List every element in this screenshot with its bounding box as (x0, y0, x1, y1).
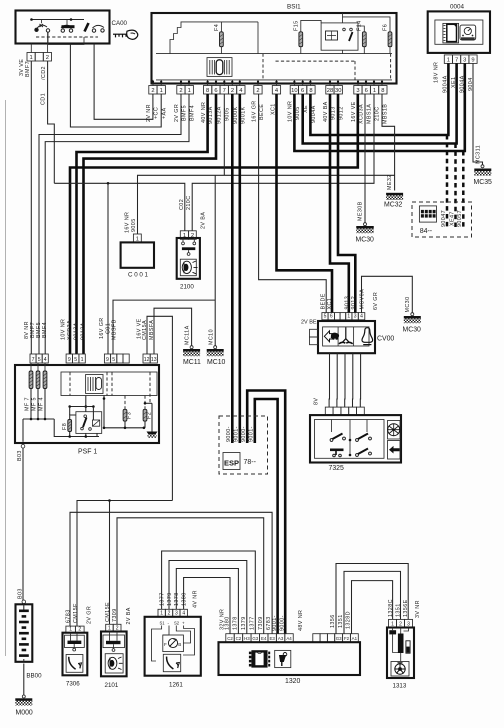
svg-text:12: 12 (144, 357, 150, 363)
svg-text:8V: 8V (314, 398, 320, 405)
svg-text:E4: E4 (261, 636, 267, 641)
key symbol (113, 30, 138, 39)
1320 box (219, 642, 361, 675)
dashed wire 90057 (462, 151, 465, 228)
svg-text:B: B (178, 642, 181, 647)
PSF1 relay bottom stubs (85, 433, 87, 436)
wire CM15E branch to 2101 (109, 501, 111, 625)
svg-text:8: 8 (309, 88, 312, 94)
svg-text:28: 28 (327, 88, 333, 94)
dashed wire XE47 (454, 144, 457, 229)
svg-text:1: 1 (188, 88, 191, 94)
svg-text:PSF 1: PSF 1 (78, 449, 97, 456)
svg-text:BMF7: BMF7 (25, 61, 31, 77)
connector CA00 pins 1 2 (27, 53, 35, 62)
svg-text:40V BA: 40V BA (323, 101, 329, 122)
svg-text:5: 5 (112, 357, 115, 363)
ground M000 (22, 695, 25, 698)
svg-text:A3: A3 (278, 636, 284, 641)
svg-text:16V GR: 16V GR (251, 100, 257, 122)
CV00 connector pins 5 6 1 3 4 (322, 313, 328, 320)
svg-text:5: 5 (74, 357, 77, 363)
wire 6783 7306 to 1320 (70, 512, 272, 633)
svg-text:5: 5 (38, 357, 41, 363)
svg-text:7309: 7309 (258, 616, 264, 630)
1320 chip icon (251, 650, 267, 667)
svg-text:9000-: 9000- (226, 426, 232, 442)
battery plates (19, 610, 29, 613)
svg-text:S2: S2 (174, 621, 180, 626)
svg-text:F: F (164, 642, 167, 647)
svg-text:1377: 1377 (249, 616, 255, 630)
2101 leveling icon (108, 657, 123, 670)
svg-text:1351: 1351 (396, 603, 402, 617)
svg-text:CV00: CV00 (377, 336, 394, 343)
wire MC10 leg (214, 175, 216, 345)
svg-text:MC11: MC11 (183, 359, 201, 366)
CA00 mechanical link dashed (36, 36, 98, 38)
svg-text:9005: 9005 (225, 107, 231, 121)
svg-text:BMF5: BMF5 (181, 105, 187, 121)
svg-text:0004: 0004 (450, 4, 465, 11)
svg-text:6: 6 (365, 88, 368, 94)
svg-text:2100: 2100 (180, 284, 194, 291)
wire battery to M000 (23, 664, 25, 696)
wire C01 branch to PSF1 pin9 (107, 183, 109, 354)
PSF1 MF bus (23, 418, 54, 420)
CA00 internal wire (48, 32, 84, 45)
node B03 bottom (22, 600, 26, 604)
PSF1 band dashed columns (69, 372, 71, 396)
svg-text:+AA: +AA (161, 107, 167, 119)
svg-text:F4: F4 (214, 24, 220, 31)
svg-text:9001-: 9001- (234, 426, 240, 442)
svg-text:3: 3 (463, 57, 466, 63)
svg-text:S1: S1 (160, 621, 166, 626)
1320 bulb icon (275, 650, 291, 667)
svg-text:XE47: XE47 (449, 211, 455, 226)
wires CV00 to 7325 (328, 353, 330, 407)
1261 connector pins 1 2 3 4 (158, 609, 165, 617)
fuse F3 (123, 409, 127, 421)
ground MC32 (386, 193, 403, 196)
wire XC1 BSI to CV00 pin6 (277, 94, 333, 313)
switch 2100 box (177, 238, 200, 279)
page fold line (5, 100, 7, 656)
CA00 contact 3 (92, 25, 104, 32)
wire 9004A 0004 pin1 (310, 63, 448, 135)
ground MC11 (190, 346, 193, 349)
svg-text:MBSFA: MBSFA (149, 320, 155, 340)
svg-text:40V NR: 40V NR (201, 102, 207, 123)
PSF1 lower bus right (104, 427, 144, 429)
wire CD1 from CA00 pin2 (48, 61, 55, 183)
PSF1 relay box (76, 412, 102, 434)
7325 inner contour (315, 420, 385, 459)
7325 arrow icon (388, 441, 401, 460)
svg-text:MCV0A: MCV0A (359, 289, 365, 310)
svg-text:8: 8 (206, 88, 209, 94)
7306 box (63, 633, 88, 676)
svg-text:MC30: MC30 (405, 297, 411, 313)
wire MCV0A to MC30 lower (362, 276, 413, 313)
wire pin1 stub (30, 44, 32, 53)
svg-text:1320: 1320 (285, 678, 300, 685)
BSI1 connector pins group7 (326, 86, 334, 95)
BSI1 connector pins group1 (149, 86, 157, 95)
CV00 horn icon (362, 328, 373, 345)
svg-text:C 0 0 1: C 0 0 1 (128, 272, 149, 279)
7325 wheel icon (388, 421, 401, 440)
7325 park bar switch (330, 449, 344, 452)
wire 9012A BSI to PSF1 (84, 94, 217, 354)
PSF1 connector pins 12 13 (143, 354, 150, 363)
svg-text:1: 1 (447, 57, 450, 63)
wire 210C BSI to 2100 pin2 (192, 94, 374, 231)
PSF1 internal ground (145, 402, 152, 404)
2100 contacts (182, 242, 185, 245)
svg-text:6V GR: 6V GR (373, 292, 379, 310)
svg-text:/CD2: /CD2 (41, 66, 47, 80)
wire MBSFB PSF1 to MC10 (113, 300, 215, 354)
2101 inner connector (103, 635, 125, 648)
wire 9013A BSI to PSF1 (77, 94, 208, 354)
svg-text:90047: 90047 (441, 210, 447, 227)
svg-text:F3: F3 (126, 412, 132, 419)
svg-text:1: 1 (347, 314, 350, 320)
connector C001 pin 1 (133, 234, 141, 243)
svg-text:MC30: MC30 (356, 237, 375, 244)
svg-text:E3: E3 (269, 636, 275, 641)
svg-text:9005: 9005 (131, 218, 137, 232)
svg-text:6783: 6783 (66, 609, 72, 623)
BSI1 connector pin group5 (272, 86, 280, 95)
svg-text:7: 7 (455, 57, 458, 63)
svg-text:9013: 9013 (344, 296, 350, 310)
svg-text:10V NR: 10V NR (287, 101, 293, 122)
ESP bold box (223, 453, 240, 470)
CV00 turn signal icon (324, 331, 338, 342)
svg-text:C02: C02 (179, 199, 185, 210)
BSI1 connector pins group8 (354, 86, 362, 95)
svg-text:ME32: ME32 (387, 174, 393, 190)
PSF1 band connector icon (86, 375, 103, 394)
ground MC30 lower (411, 313, 414, 316)
svg-text:16V VE: 16V VE (351, 101, 357, 122)
svg-text:9000K: 9000K (233, 106, 239, 124)
svg-text:9012A: 9012A (81, 322, 87, 340)
svg-text:6: 6 (301, 88, 304, 94)
svg-text:CM15E: CM15E (105, 602, 111, 622)
wire 1356 1320 to 1313 (336, 564, 408, 634)
0004 connector pins 1 7 3 9 (444, 55, 452, 64)
svg-text:4: 4 (360, 314, 363, 320)
diagnostic connector box 84-- (412, 202, 472, 237)
CA00 internal supply rail (32, 19, 85, 21)
svg-text:3V NR: 3V NR (415, 600, 421, 618)
wire +AA BSI to CA00 (70, 44, 161, 128)
connector C001 box (121, 242, 154, 267)
7325 box (310, 415, 401, 462)
svg-text:9: 9 (68, 357, 71, 363)
svg-text:1: 1 (160, 88, 163, 94)
7325 switch bottom-right (356, 449, 372, 457)
svg-text:9001K: 9001K (240, 106, 246, 124)
svg-text:1328D: 1328D (346, 611, 352, 629)
1320 connector blank cells (313, 634, 320, 643)
fuse F14 (362, 32, 366, 47)
wire BMF7 CA00 pin1 to PSF1 pin7 (30, 61, 32, 354)
wire 1379 1261 to 1320 (169, 561, 247, 634)
CV00 box (318, 321, 375, 353)
7325 switch top-right (356, 434, 372, 442)
svg-text:9012: 9012 (351, 296, 357, 310)
1261 mirror icon (167, 657, 180, 669)
svg-text:F6: F6 (383, 24, 389, 31)
CV00 inner icons frame (323, 327, 369, 346)
svg-text:F2: F2 (146, 412, 152, 419)
svg-text:3: 3 (356, 88, 359, 94)
wire 9005 stub BSI pin7 (223, 94, 225, 175)
PSF1 band down columns (103, 396, 105, 428)
svg-text:1356E: 1356E (403, 599, 409, 617)
svg-text:1380: 1380 (181, 592, 187, 606)
svg-text:9: 9 (106, 357, 109, 363)
wire 9005 0004 pin3 (294, 63, 464, 151)
svg-text:MBSFB: MBSFB (112, 319, 118, 340)
fuse MF4 (44, 363, 46, 371)
wire XCD3A BSI pin3 to PSF1 pin9 (70, 94, 358, 354)
wire MBSFA PSF1 pin13 to MC11 (154, 308, 192, 354)
svg-text:78--: 78-- (244, 459, 257, 466)
dashed wire 90047 (446, 135, 449, 228)
svg-text:2V BA: 2V BA (201, 212, 207, 229)
svg-text:210C: 210C (374, 107, 380, 122)
svg-text:1: 1 (81, 357, 84, 363)
svg-text:4V NR: 4V NR (193, 590, 199, 608)
svg-text:F15: F15 (294, 21, 300, 32)
svg-text:9: 9 (471, 57, 474, 63)
svg-text:9001-: 9001- (272, 615, 278, 631)
wire 1351 1320 to 1313 (344, 571, 401, 633)
BSI1 internal bus band (156, 53, 392, 55)
svg-text:1377: 1377 (159, 592, 165, 606)
0004 inner frame (435, 20, 483, 44)
7325 inner wiring (349, 420, 351, 456)
svg-text:XCD3A: XCD3A (358, 104, 364, 124)
svg-text:+CC: +CC (153, 107, 159, 119)
svg-text:90057: 90057 (457, 210, 463, 227)
svg-text:13: 13 (151, 357, 157, 363)
svg-text:48V NR: 48V NR (298, 610, 304, 631)
svg-text:CA00: CA00 (112, 20, 128, 27)
svg-text:2V GR: 2V GR (174, 104, 180, 122)
wire BMF4 BSI to PSF1 pin4 (45, 94, 189, 354)
svg-text:F2: F2 (344, 636, 350, 641)
svg-text:MF 7: MF 7 (25, 397, 31, 411)
svg-text:MBS1B: MBS1B (382, 104, 388, 124)
BSI1 connector pins group6 (290, 86, 298, 95)
svg-text:2V GR: 2V GR (87, 606, 93, 624)
svg-text:MF 4: MF 4 (39, 397, 45, 411)
svg-text:2101: 2101 (105, 682, 119, 689)
BSI1 connector pins group2 (177, 86, 185, 95)
ground MC35 (481, 165, 484, 168)
svg-text:ME30B: ME30B (358, 201, 364, 221)
svg-text:1328C: 1328C (388, 599, 394, 617)
fuse MF7 (30, 363, 32, 371)
svg-text:2V BA: 2V BA (126, 607, 132, 624)
svg-text:6: 6 (330, 314, 333, 320)
svg-text:B03: B03 (17, 450, 23, 461)
CV00 wiper icon (339, 327, 353, 344)
svg-text:2: 2 (46, 55, 49, 61)
svg-text:1: 1 (373, 88, 376, 94)
svg-text:10V NR: 10V NR (61, 319, 67, 340)
svg-text:1313: 1313 (393, 683, 407, 690)
wire 9013 BSI to CV00 pin1 (330, 94, 349, 313)
svg-text:2: 2 (256, 88, 259, 94)
svg-text:1356: 1356 (330, 614, 336, 628)
BSI1 internal junction dots (152, 80, 154, 86)
BSI1 connector pin group4 (254, 86, 262, 95)
wire 1380 1261 to 1320 (184, 578, 230, 634)
1320 connector cells G3 F2 A1 (335, 634, 343, 643)
fuse F2 (143, 409, 147, 421)
PSF1 relay stub to band (85, 396, 87, 412)
wire 7309 2101 to 1320 (117, 518, 264, 634)
svg-text:G3: G3 (336, 636, 342, 641)
svg-text:XC1: XC1 (327, 298, 333, 310)
svg-text:30: 30 (335, 88, 341, 94)
svg-text:MBS1A: MBS1A (366, 104, 372, 124)
battery BB00 box (16, 604, 33, 662)
svg-text:1378: 1378 (174, 592, 180, 606)
wire B03 to battery (22, 448, 24, 600)
PSF1 internal band (61, 372, 157, 396)
svg-text:16V NR: 16V NR (125, 212, 131, 233)
svg-text:CD1: CD1 (41, 93, 47, 105)
svg-text:7325: 7325 (329, 465, 344, 472)
svg-text:BMF4: BMF4 (189, 105, 195, 121)
fuse F15 (299, 32, 303, 47)
svg-text:9013A: 9013A (208, 106, 214, 124)
svg-text:1: 1 (29, 55, 32, 61)
1261 rheostat box (163, 635, 184, 652)
7325 switch top-left (330, 434, 345, 442)
svg-text:M000: M000 (16, 710, 33, 717)
BSI1 connector pins group3 (204, 86, 212, 95)
svg-text:C2: C2 (227, 636, 233, 641)
svg-text:10: 10 (291, 88, 297, 94)
wire BMF5 BSI to PSF1 pin5 (39, 94, 181, 354)
fuse MF5 (37, 363, 39, 371)
svg-text:210C: 210C (186, 196, 192, 211)
1313 box (387, 628, 414, 679)
svg-text:F8: F8 (62, 423, 68, 430)
wire BECE BSI to CV00 pin5 (259, 94, 327, 313)
wire 1378 1261 to 1320 (176, 569, 238, 634)
svg-text:MC11A: MC11A (185, 325, 191, 345)
fuse F4 (220, 32, 224, 47)
1313 resistor elements (392, 628, 394, 631)
CA00 contact 1 (35, 24, 50, 32)
BSI1 box (152, 13, 397, 84)
7306 icon box (66, 655, 83, 673)
svg-text:2V BE: 2V BE (301, 319, 317, 325)
svg-text:+: + (182, 621, 185, 626)
CA00 contact 2 (61, 25, 73, 32)
wire 9012 BSI to CV00 pin3 (338, 94, 355, 313)
svg-text:1351: 1351 (338, 614, 344, 628)
svg-text:7: 7 (32, 357, 35, 363)
svg-text:9012A: 9012A (217, 106, 223, 124)
svg-text:1380: 1380 (224, 616, 230, 630)
svg-text:7: 7 (223, 88, 226, 94)
wire XE 0004 pin7 (303, 63, 457, 143)
svg-text:2: 2 (231, 88, 234, 94)
svg-text:18V NR: 18V NR (434, 62, 440, 83)
svg-text:BMF4: BMF4 (42, 322, 48, 338)
PSF1 connector pins 7 5 4 (30, 354, 36, 363)
svg-text:BSI1: BSI1 (287, 4, 301, 11)
wire 1377 1261 to 1320 (162, 551, 256, 634)
7306 inner connector (65, 635, 85, 647)
1261 icon box (163, 654, 180, 671)
svg-text:BMF5: BMF5 (36, 322, 42, 338)
svg-text:16V GR: 16V GR (99, 317, 105, 339)
2100 icon box (180, 259, 196, 276)
svg-text:CM15F: CM15F (73, 603, 79, 623)
2100 lighting icon (182, 261, 197, 274)
svg-text:C2: C2 (236, 636, 242, 641)
7306 mirror icon (69, 657, 82, 669)
svg-text:XCD3A: XCD3A (67, 320, 73, 340)
7306 connector pins 1 2 (66, 626, 76, 633)
unit 0004 box (428, 11, 490, 53)
svg-text:MC10: MC10 (207, 359, 226, 366)
2101 icon box (105, 654, 123, 673)
svg-text:84--: 84-- (420, 228, 433, 235)
svg-text:2: 2 (151, 88, 154, 94)
svg-text:H3: H3 (244, 636, 250, 641)
svg-text:A1: A1 (352, 636, 358, 641)
1320 connector cells left group (226, 634, 234, 643)
switch 2100 pins 1 2 (180, 231, 188, 240)
wire CM15 junction run (77, 501, 172, 627)
PSF1 bus to B03 (22, 419, 24, 442)
svg-text:MC32: MC32 (384, 202, 403, 209)
svg-text:1261: 1261 (169, 682, 183, 689)
2101 connector pins 1 2 (106, 624, 114, 631)
svg-text:B03: B03 (18, 588, 24, 599)
node B03 top (21, 444, 25, 448)
wire 1328D 1320 to 1313 (352, 581, 393, 634)
PSF1 connector pins 9 5 blank (104, 354, 110, 363)
fuse F8 (68, 420, 72, 432)
svg-text:9000-: 9000- (280, 615, 286, 631)
wire 9000K BSI to ESP (231, 94, 234, 443)
svg-text:MC30: MC30 (403, 327, 422, 334)
2101 box (101, 632, 127, 677)
svg-text:1379: 1379 (167, 592, 173, 606)
wire C01 CD1 run to PSF1 and 2100 (54, 183, 185, 231)
svg-text:A4: A4 (286, 636, 292, 641)
svg-text:2: 2 (179, 88, 182, 94)
BSI1 inner rectangle with step (170, 22, 258, 54)
wire 9001- ESP stub (255, 399, 278, 634)
svg-text:7306: 7306 (66, 681, 80, 688)
